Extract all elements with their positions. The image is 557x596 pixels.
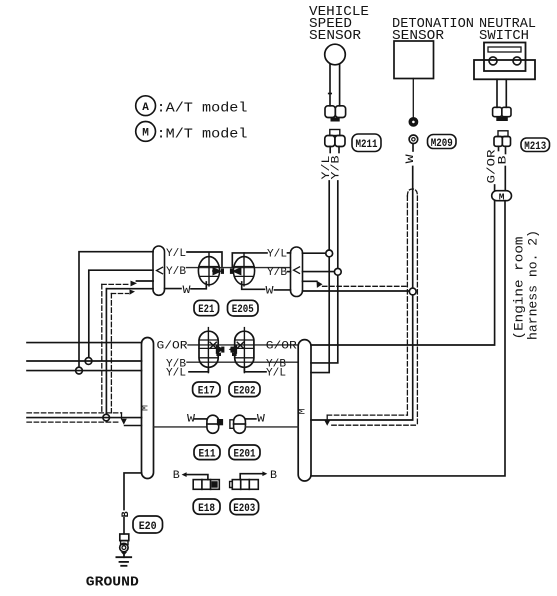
- wire Y/L hook into E21: [187, 252, 222, 267]
- wire Y/L hook out of E202: [244, 368, 266, 372]
- vehicle speed sensor symbol: [325, 44, 346, 121]
- svg-text:Y/B: Y/B: [267, 267, 287, 279]
- wire E201 to W label: [245, 418, 256, 420]
- wire W from E205 pill to junction: [303, 290, 410, 292]
- svg-text:E205: E205: [232, 304, 254, 316]
- svg-text:E202: E202: [234, 385, 256, 397]
- oval label E205: [228, 300, 259, 316]
- connector label M211: [352, 134, 381, 152]
- dashed cap (A/T): [407, 189, 417, 196]
- ground symbol: [116, 556, 131, 566]
- oval label E20: [133, 516, 163, 533]
- connector E203 symbol: [230, 480, 259, 490]
- solid vertical W left: [105, 289, 107, 415]
- wire Y/L left of E21: [79, 252, 153, 368]
- legend A/T model: [136, 96, 248, 117]
- wire W solid left: [27, 417, 142, 419]
- svg-text:Y/L: Y/L: [267, 249, 287, 261]
- oval label E17: [193, 382, 220, 397]
- oval label E202: [229, 382, 260, 397]
- svg-text:M211: M211: [356, 139, 378, 151]
- connector label M213: [521, 138, 550, 153]
- wire W hook from E21: [191, 282, 206, 289]
- svg-text:W: W: [266, 286, 274, 298]
- arrow down from dashed: [121, 413, 123, 419]
- vehicle speed sensor mating connector M211: [325, 130, 345, 147]
- junction Y/B: [334, 268, 341, 275]
- detonation sensor symbol: [394, 41, 434, 127]
- junction Y/L-E17row: [76, 367, 83, 374]
- connector E18 symbol: [193, 480, 219, 490]
- wire B label (neutral switch): [498, 146, 510, 190]
- oval label E201: [229, 445, 260, 460]
- wire Y/B label (vehicle speed sensor): [330, 147, 342, 180]
- svg-text:B: B: [498, 155, 510, 165]
- wire Y/L left: [27, 370, 142, 372]
- wire W vertical from detonation sensor: [412, 167, 414, 289]
- wire Y/L to junction: [303, 252, 326, 254]
- svg-text:E21: E21: [198, 304, 214, 316]
- svg-text:Y/L: Y/L: [266, 368, 286, 380]
- svg-text:E11: E11: [199, 448, 216, 460]
- dashed vertical (A/T) left inner: [110, 294, 112, 413]
- wire E201 to right pill: [245, 426, 298, 428]
- svg-text:Y/B: Y/B: [166, 266, 186, 278]
- harness pill right tall (M/T): [298, 340, 311, 481]
- vehicle speed sensor title: [309, 4, 369, 44]
- svg-text:Y/L: Y/L: [166, 248, 186, 260]
- svg-text:M: M: [499, 191, 505, 202]
- svg-text:W: W: [183, 285, 191, 297]
- svg-text:E201: E201: [234, 448, 256, 460]
- connector E202 symbol: [229, 328, 254, 373]
- svg-text:GROUND: GROUND: [86, 575, 139, 591]
- svg-text:M: M: [142, 128, 149, 140]
- oval label E203: [230, 499, 259, 515]
- wire W hook from E205: [242, 282, 265, 289]
- junction Y/L: [326, 250, 333, 257]
- wire G/OR left: [27, 342, 142, 344]
- connector E205 symbol: [230, 253, 255, 286]
- dashed lower right (A/T): [332, 424, 418, 426]
- svg-text:(Engine room: (Engine room: [512, 236, 527, 339]
- detonation sensor title: [392, 16, 474, 44]
- connector E17 symbol: [199, 328, 224, 373]
- svg-text:SWITCH: SWITCH: [479, 28, 529, 44]
- svg-text:W: W: [405, 154, 417, 164]
- wire W dashed upper left (A/T): [27, 412, 122, 414]
- wire W from label to pill (E21): [165, 288, 182, 290]
- connector E201 symbol: [230, 415, 246, 433]
- wire W from label to pill (E205): [275, 289, 291, 291]
- wire Y/L hook into E17: [189, 368, 208, 372]
- wire to ground terminal: [123, 518, 125, 534]
- svg-text:G/OR: G/OR: [486, 149, 498, 184]
- harness pill left tall (M/T): [141, 338, 154, 479]
- svg-text:B: B: [121, 511, 132, 517]
- wire Y/L vertical from sensor: [328, 181, 330, 250]
- wire Y/B through E21-E205: [187, 267, 291, 269]
- dashed vertical right outer (A/T): [406, 196, 408, 415]
- oval label E21: [194, 300, 219, 316]
- svg-text:M: M: [298, 408, 309, 414]
- wire Y/B left: [27, 360, 142, 362]
- svg-text:G/OR: G/OR: [266, 340, 297, 352]
- svg-text:G/OR: G/OR: [157, 340, 188, 352]
- svg-text:E20: E20: [139, 521, 157, 533]
- dashed vertical right inner (A/T): [416, 196, 418, 425]
- M/T model marker pill: [492, 191, 512, 203]
- svg-text:B: B: [173, 470, 180, 482]
- neutral switch mating connector M213: [494, 131, 511, 147]
- svg-text:harness no. 2): harness no. 2): [526, 230, 541, 340]
- dashed vertical (A/T) left outer: [101, 284, 103, 413]
- svg-text:SENSOR: SENSOR: [309, 28, 362, 44]
- wire Y/B to junction: [303, 271, 335, 273]
- wire Y/B through E17-E202: [187, 361, 297, 363]
- svg-text:W: W: [257, 414, 265, 426]
- svg-text:Y/B: Y/B: [330, 155, 342, 179]
- right W cluster: dashed upper with arrow: [324, 415, 407, 426]
- junction W: [409, 288, 416, 295]
- wire G/OR vertical from neutral switch: [311, 201, 495, 345]
- svg-text:A: A: [142, 102, 149, 114]
- wire W vertical continues to W row: [311, 295, 413, 420]
- wire B vertical from neutral switch: [311, 201, 505, 476]
- wire stub Y/L label to pill: [288, 252, 291, 254]
- E205 row: harness pill right: [291, 247, 303, 297]
- wire Y/B left of E21: [89, 270, 153, 358]
- neutral switch symbol: [474, 43, 535, 122]
- svg-text:E17: E17: [198, 385, 215, 397]
- connector E21 symbol: [198, 253, 224, 286]
- neutral switch title: [479, 16, 536, 44]
- E21 row left A/T dashed wire with arrow: [102, 283, 130, 285]
- ground terminal: [120, 534, 129, 556]
- wire W pill to E11: [154, 426, 207, 428]
- wire W label stub to E11: [195, 418, 207, 420]
- wire from arrow to pill: [125, 425, 142, 427]
- engine room harness note: [512, 230, 541, 340]
- svg-text:E203: E203: [233, 503, 255, 515]
- legend M/T model: [136, 121, 248, 142]
- svg-text:M209: M209: [431, 138, 453, 150]
- svg-text:M213: M213: [524, 141, 546, 153]
- wire G/OR through E17-E202: [188, 344, 297, 346]
- svg-text::M/T model: :M/T model: [157, 127, 248, 142]
- wire W arrow from E205 pill: [303, 280, 317, 282]
- oval label E18: [193, 499, 220, 515]
- detonation mating connector M209: [409, 135, 418, 144]
- wire Y/L hook into E205: [232, 253, 267, 267]
- wire G/OR label (neutral switch): [486, 146, 498, 190]
- wire Y/B vertical from sensor: [337, 181, 339, 268]
- junction W left: [103, 414, 110, 421]
- wire W label (detonation): [405, 144, 417, 164]
- svg-text:E18: E18: [198, 503, 215, 515]
- wire B from pill to ground: [124, 473, 142, 510]
- wire W dashed lower left (A/T): [27, 421, 119, 423]
- svg-text:Y/L: Y/L: [166, 368, 186, 380]
- oval label E11: [194, 445, 220, 460]
- chevron on E21 pill: [157, 267, 163, 274]
- dashed stub with arrow lower (A/T): [111, 290, 135, 295]
- wire B from E203: [240, 471, 267, 479]
- wire stub Y/B label to pill: [288, 271, 291, 273]
- E21 row: harness pill left: [153, 246, 165, 295]
- svg-text::A/T model: :A/T model: [157, 102, 248, 117]
- chevron on E205 pill: [294, 267, 300, 274]
- wire W dashed (A/T) to detonation: [323, 285, 408, 287]
- wire Y/B right of pill to junction vertical: [311, 275, 338, 363]
- wire Y/L label (vehicle speed sensor): [321, 147, 333, 180]
- svg-text:M: M: [141, 405, 152, 411]
- connector E11 symbol: [207, 415, 223, 433]
- wire B to E18: [182, 472, 208, 479]
- wire Y/L right of pill to junction vertical: [311, 257, 329, 373]
- connector label M209: [428, 135, 457, 151]
- junction Y/B-E17row: [85, 358, 92, 365]
- svg-text:B: B: [270, 470, 277, 482]
- wire W left of E21 pill: [107, 288, 153, 290]
